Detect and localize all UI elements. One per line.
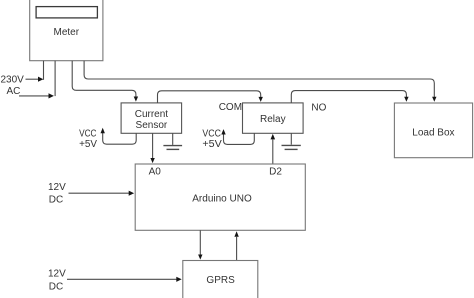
wire sensor to A0 bbox=[152, 133, 154, 158]
arrow AC bbox=[19, 95, 49, 97]
meter display bbox=[36, 7, 97, 18]
relay K1 bbox=[243, 103, 304, 133]
load box bbox=[394, 103, 472, 158]
wire relay NO to load box bbox=[291, 91, 406, 103]
wire current sensor COM to relay bbox=[158, 91, 261, 103]
svg-text:230V: 230V bbox=[1, 75, 25, 86]
arrow 230V bbox=[26, 78, 39, 80]
svg-text:DC: DC bbox=[49, 282, 63, 293]
svg-text:VCC: VCC bbox=[202, 129, 221, 140]
svg-text:12V: 12V bbox=[48, 269, 66, 280]
ground (sensor) bbox=[172, 133, 174, 145]
wire arduino to gprs bbox=[199, 230, 201, 255]
svg-text:Relay: Relay bbox=[260, 114, 286, 125]
svg-text:Sensor: Sensor bbox=[136, 120, 168, 131]
svg-text:DC: DC bbox=[49, 194, 63, 205]
svg-text:COM: COM bbox=[219, 102, 242, 113]
svg-text:D2: D2 bbox=[269, 167, 282, 178]
arduino U2 bbox=[135, 164, 305, 230]
wire N stub bbox=[54, 61, 56, 96]
arrow 12V DC to arduino bbox=[69, 192, 130, 194]
wire L stub bbox=[43, 61, 45, 80]
svg-text:+5V: +5V bbox=[79, 139, 97, 150]
svg-text:12V: 12V bbox=[48, 182, 66, 193]
wire meter to load box bbox=[84, 61, 434, 97]
svg-text:Load Box: Load Box bbox=[412, 128, 454, 139]
ground (relay) bbox=[290, 133, 292, 144]
current sensor U1 bbox=[121, 103, 182, 133]
wire D2 to relay bbox=[272, 139, 274, 164]
svg-text:NO: NO bbox=[311, 103, 326, 114]
svg-text:VCC: VCC bbox=[79, 128, 96, 139]
gprs box bbox=[183, 261, 258, 298]
vcc wire (relay) bbox=[224, 133, 255, 144]
meter M1 bbox=[30, 0, 103, 61]
arrow 12V DC to gprs bbox=[67, 278, 177, 280]
svg-text:GPRS: GPRS bbox=[206, 275, 235, 286]
svg-text:A0: A0 bbox=[149, 167, 162, 178]
svg-text:AC: AC bbox=[7, 86, 21, 97]
vcc wire (sensor) bbox=[103, 133, 137, 145]
wire meter to current sensor bbox=[72, 61, 136, 97]
svg-text:Current: Current bbox=[135, 109, 169, 120]
svg-text:+5V: +5V bbox=[202, 139, 222, 150]
svg-text:Meter: Meter bbox=[54, 27, 80, 38]
wire gprs to arduino bbox=[236, 237, 238, 261]
svg-text:Arduino UNO: Arduino UNO bbox=[192, 194, 252, 205]
